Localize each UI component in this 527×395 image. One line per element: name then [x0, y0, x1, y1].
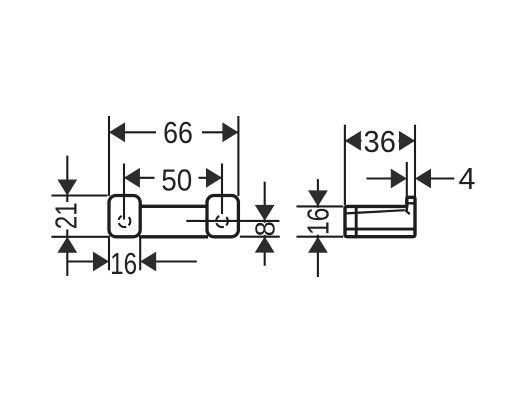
arrow 16 side top	[308, 190, 328, 206]
bar bottom edge	[139, 235, 208, 238]
extension line 66 left	[108, 116, 110, 196]
dimension line 66	[109, 131, 238, 133]
extension line 66 right	[237, 116, 239, 196]
left hook circle (dashed)	[119, 215, 131, 227]
arm inner bottom line	[345, 228, 415, 231]
dimension line 16 right shaft	[156, 260, 197, 262]
arrow 4 right	[415, 169, 431, 189]
extension line 16 side bottom	[297, 236, 344, 238]
centerline left hook / ext 50 left	[123, 164, 125, 220]
extension line 36 right / 4 right	[414, 125, 416, 197]
extension line 16 right	[139, 237, 141, 270]
arrow 36 left	[345, 131, 361, 151]
tip notch line	[408, 202, 415, 204]
svg-text:4: 4	[459, 162, 476, 196]
svg-text:8: 8	[249, 221, 280, 236]
arrow 16 right	[140, 252, 156, 272]
arrow 66 left	[109, 122, 125, 142]
extension line 16 side top	[297, 205, 344, 207]
svg-text:16: 16	[110, 247, 137, 281]
arrow 16 left	[93, 252, 109, 272]
label 21 (rotated)	[54, 202, 79, 230]
arm inner slant line	[346, 210, 405, 213]
arrow 4 left	[391, 169, 407, 189]
extension line 21 bottom	[51, 236, 110, 238]
label 8 (rotated)	[256, 223, 274, 235]
extension line 36 left	[344, 125, 346, 205]
label 50	[155, 165, 199, 191]
dimension line 36	[345, 140, 415, 142]
dimension line 4 left shaft	[367, 177, 392, 179]
dimension line 16 left shaft	[67, 260, 93, 262]
arrow 8 bottom	[255, 237, 275, 253]
dimension line 50	[124, 177, 222, 179]
svg-text:21: 21	[50, 202, 84, 229]
extension line 21 top	[51, 194, 107, 196]
arrow 50 left	[124, 168, 140, 188]
dimension line 4 right shaft	[431, 177, 454, 179]
hook inner diagonal	[405, 210, 410, 214]
centerline right hook horizontal / ext 8 top	[186, 220, 279, 222]
svg-text:50: 50	[161, 164, 192, 198]
wall plate inner vertical	[355, 206, 358, 236]
arrow 16 side bottom	[308, 237, 328, 253]
arrow 36 right	[399, 131, 415, 151]
centerline right hook vertical / ext 50 right	[221, 164, 223, 215]
bar top edge	[139, 205, 208, 208]
label 16 side (rotated)	[307, 208, 330, 235]
extension line 4 left	[406, 162, 408, 198]
arrow 21 top	[57, 180, 77, 196]
arrow 21 bottom	[57, 237, 77, 253]
arrow 8 top	[255, 205, 275, 221]
arrow 50 right	[206, 168, 222, 188]
svg-text:16: 16	[302, 208, 336, 236]
extension line 8 bottom	[240, 236, 280, 238]
right hook circle (dashed)	[216, 215, 228, 227]
hook tip left edge lower extension	[405, 206, 408, 210]
left hook square	[109, 196, 140, 237]
dimension line 16 side	[317, 179, 319, 277]
svg-text:66: 66	[163, 116, 193, 150]
arrow 66 right	[222, 122, 238, 142]
label 36	[362, 128, 399, 154]
side view outline (wall plate + arm + upturned tip)	[345, 197, 415, 236]
svg-text:36: 36	[364, 125, 396, 159]
right hook square	[207, 196, 238, 237]
label 66	[156, 119, 202, 146]
dimension line 21	[66, 156, 68, 276]
dimension line 8	[264, 182, 266, 266]
extension line 16 left	[108, 237, 110, 270]
